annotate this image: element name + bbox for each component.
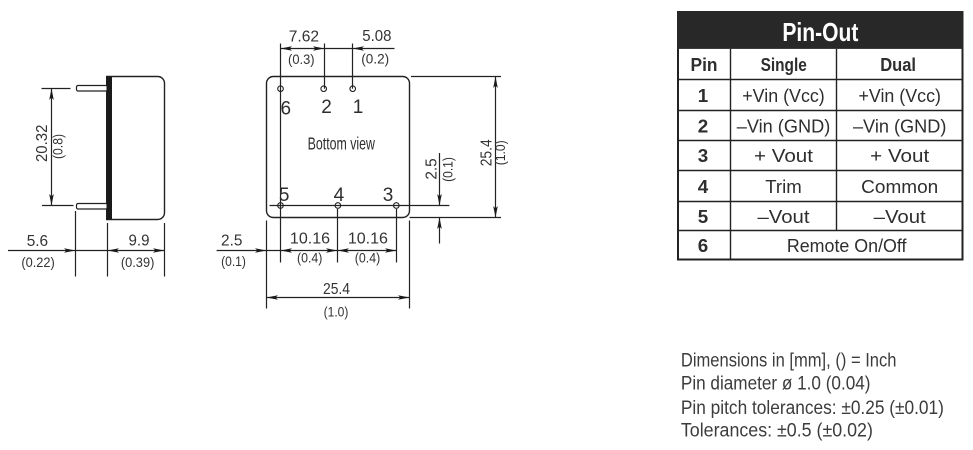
svg-text:Pin diameter ø 1.0 (0.04): Pin diameter ø 1.0 (0.04) (681, 373, 871, 395)
svg-text:+ Vout: + Vout (870, 145, 930, 166)
svg-text:9.9: 9.9 (129, 233, 150, 250)
table column lines (731, 49, 837, 260)
svg-text:–Vin (GND): –Vin (GND) (853, 115, 947, 136)
svg-text:7.62: 7.62 (289, 29, 319, 46)
pin 5 circle (278, 203, 284, 209)
extension line body bottom right (410, 217, 502, 219)
extension line pin tip (75, 211, 77, 277)
top dim line 7.62 / 5.08 (281, 46, 395, 51)
footer notes (681, 349, 944, 441)
svg-text:(0.4): (0.4) (355, 251, 380, 266)
dim 20.32 extension line top (42, 88, 71, 90)
svg-text:+Vin (Vcc): +Vin (Vcc) (742, 85, 825, 106)
svg-text:1: 1 (353, 97, 364, 118)
table header band (677, 11, 964, 49)
svg-text:–Vout: –Vout (874, 206, 927, 227)
svg-text:6: 6 (281, 99, 292, 120)
dim 5.6 / 9.9 dimension line (8, 248, 165, 253)
svg-text:2.5: 2.5 (221, 233, 242, 250)
bottom dim line 2.5 / 10.16 / 10.16 (217, 248, 397, 253)
extension line pin 3 (396, 209, 398, 263)
pin-out table (677, 11, 964, 260)
svg-text:Trim: Trim (765, 176, 802, 197)
svg-text:(0.22): (0.22) (21, 255, 54, 270)
pin row line (270, 205, 450, 207)
svg-text:(0.1): (0.1) (440, 157, 455, 182)
table row lines (678, 80, 964, 231)
svg-text:10.16: 10.16 (348, 231, 388, 248)
extension line body left bottom (266, 221, 268, 309)
pin 2 circle (321, 86, 327, 92)
svg-text:(0.4): (0.4) (297, 251, 322, 266)
dim 2.5 right lower segment (437, 218, 442, 244)
extension line body right bottom (409, 221, 411, 309)
svg-text:4: 4 (698, 176, 709, 197)
extension line pin 4 (337, 209, 339, 263)
svg-text:2: 2 (698, 115, 708, 136)
svg-text:–Vout: –Vout (758, 206, 811, 227)
svg-text:20.32: 20.32 (34, 124, 51, 162)
extension line pins 6/5 column (280, 44, 282, 263)
svg-text:Common: Common (861, 176, 938, 197)
pin 4 circle (335, 203, 341, 209)
svg-text:4: 4 (334, 185, 345, 206)
dim 20.32 extension line bottom (42, 205, 74, 207)
pin 6 circle (278, 86, 284, 92)
svg-text:Dimensions in [mm], () = Inch: Dimensions in [mm], () = Inch (681, 349, 897, 371)
svg-text:(0.8): (0.8) (51, 134, 66, 159)
svg-text:3: 3 (383, 185, 394, 206)
extension line body left (107, 223, 109, 277)
svg-text:Pin: Pin (691, 54, 718, 75)
svg-text:10.16: 10.16 (290, 231, 330, 248)
svg-text:6: 6 (698, 235, 708, 256)
side view body outline (107, 77, 165, 220)
dim 25.4 bottom line (267, 295, 410, 300)
svg-text:25.4: 25.4 (323, 281, 350, 298)
svg-text:Tolerances: ±0.5 (±0.02): Tolerances: ±0.5 (±0.02) (681, 420, 873, 442)
side view pin-side black bar (107, 77, 113, 220)
extension line body top right (411, 76, 501, 78)
svg-text:+Vin (Vcc): +Vin (Vcc) (858, 85, 941, 106)
dim 25.4 right line (493, 77, 498, 218)
bottom view body outline (267, 77, 410, 218)
svg-text:Pin pitch tolerances: ±0.25 (±: Pin pitch tolerances: ±0.25 (±0.01) (681, 397, 944, 419)
side view bottom pin (77, 204, 108, 210)
dim 2.5 right upper segment (437, 153, 442, 206)
dim 20.32 line (49, 89, 54, 206)
extension line pin 1 (352, 44, 354, 89)
pin 3 circle (394, 203, 400, 209)
svg-text:Pin-Out: Pin-Out (782, 19, 858, 47)
svg-text:5.6: 5.6 (27, 233, 48, 250)
svg-text:–Vin (GND): –Vin (GND) (737, 115, 831, 136)
svg-text:3: 3 (698, 145, 708, 166)
svg-text:2.5: 2.5 (424, 158, 441, 179)
svg-text:2: 2 (321, 97, 332, 118)
side view top pin (77, 86, 108, 92)
svg-text:(0.3): (0.3) (288, 52, 315, 67)
svg-text:5: 5 (698, 206, 708, 227)
svg-text:+ Vout: + Vout (754, 145, 814, 166)
svg-text:Dual: Dual (880, 54, 916, 75)
svg-text:(0.39): (0.39) (121, 255, 155, 270)
pin 1 circle (350, 86, 356, 92)
table outer background (678, 12, 963, 260)
extension line pin 2 (324, 44, 326, 89)
svg-text:Bottom view: Bottom view (308, 134, 376, 154)
svg-text:(0.2): (0.2) (361, 52, 389, 67)
svg-text:5.08: 5.08 (362, 28, 391, 45)
extension line body right (164, 223, 166, 277)
svg-text:(1.0): (1.0) (493, 140, 508, 165)
svg-text:(0.1): (0.1) (221, 254, 246, 269)
svg-text:1: 1 (698, 85, 708, 106)
svg-text:5: 5 (279, 185, 290, 206)
svg-text:Single: Single (761, 54, 807, 75)
svg-text:(1.0): (1.0) (324, 305, 349, 320)
svg-text:Remote On/Off: Remote On/Off (787, 235, 907, 256)
